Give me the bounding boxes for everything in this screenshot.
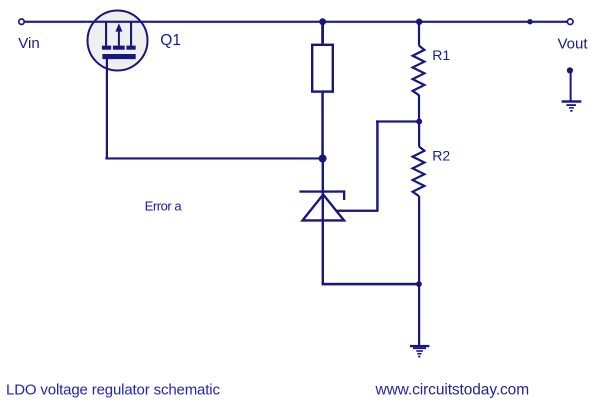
junction dot near Vout (527, 19, 532, 24)
node Vout ground stub dot (567, 67, 573, 73)
svg-text:R2: R2 (432, 148, 450, 164)
junction dot R1-R2 node (416, 119, 422, 125)
junction dot bottom rail (416, 281, 422, 287)
terminal Vout (567, 19, 573, 25)
wire: R1 to R1-R2 node (418, 95, 420, 122)
label Q1 (160, 32, 181, 49)
wire: Vin terminal to Q1 (24, 21, 88, 23)
wire: error node down through zener to bottom rail (322, 159, 324, 286)
ground (top right) (562, 100, 582, 112)
junction dot at R1 branch (416, 19, 422, 25)
label R1 (432, 47, 450, 63)
wire: feedback horizontal to zener anode (336, 210, 378, 212)
wire: R1-R2 node to R2 (418, 122, 420, 147)
svg-text:Error a: Error a (145, 198, 183, 213)
svg-text:Vout: Vout (558, 35, 589, 52)
terminal Vin (19, 19, 24, 24)
wire: through Q1 circle (88, 21, 148, 23)
label Vout (558, 35, 589, 52)
junction dot at pass-resistor branch (319, 18, 326, 25)
wire: R2 down to ground (418, 196, 420, 346)
wire: top junction down to series resistor (321, 22, 324, 44)
svg-text:R1: R1 (432, 47, 450, 63)
label R2 (432, 148, 450, 164)
wire: gate lead horizontal to error node (105, 157, 322, 159)
svg-text:Vin: Vin (18, 35, 39, 52)
wire: bottom rail zener to R2 leg (322, 283, 420, 286)
resistor (series pass, rectangle body) (312, 45, 333, 92)
resistor R1 (zigzag) (413, 46, 425, 96)
wire: feedback vertical (376, 120, 378, 211)
wire: gate lead vertical from Q1 (106, 59, 108, 160)
zener diode D1 (299, 190, 345, 220)
svg-text:Q1: Q1 (160, 32, 181, 49)
resistor R2 (zigzag) (413, 147, 425, 197)
label Error a (error amplifier note) (145, 198, 183, 213)
wire: top junction down to R1 (418, 22, 420, 46)
label Vin (18, 35, 39, 52)
transistor Q1 (P-MOSFET in circle) (88, 11, 148, 71)
wire: Vout stub to ground (570, 72, 572, 102)
wire: series resistor to error node (321, 93, 324, 159)
svg-text:LDO voltage regulator schemati: LDO voltage regulator schematic (6, 382, 220, 399)
caption: www.circuitstoday.com (375, 382, 530, 399)
junction dot error node (319, 155, 327, 163)
wire: Q1 to Vout terminal (147, 21, 567, 23)
caption: LDO voltage regulator schematic (6, 382, 220, 399)
svg-text:www.circuitstoday.com: www.circuitstoday.com (375, 382, 530, 399)
wire: feedback horizontal from R1-R2 node (376, 120, 419, 122)
ground (bottom right) (410, 345, 430, 358)
